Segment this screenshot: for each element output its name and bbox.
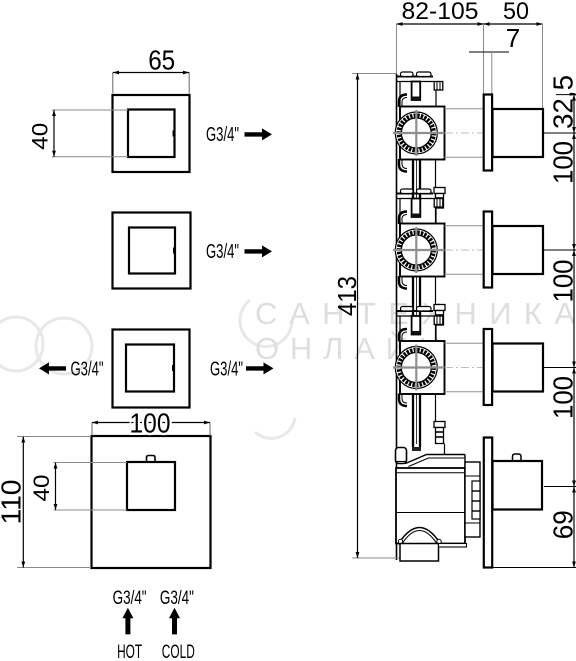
dimension 110 extension lines (17, 436, 91, 438)
trim plate square 2 outer (113, 213, 191, 289)
svg-text:65: 65 (148, 45, 175, 76)
valve cartridge V1 (393, 72, 543, 172)
svg-text:7: 7 (506, 23, 520, 53)
right dimension chain line (573, 95, 575, 568)
dimension 110 line (22, 437, 24, 568)
svg-text:50: 50 (503, 0, 529, 25)
svg-text:40: 40 (28, 123, 53, 150)
thermostat bracket cap (396, 448, 407, 464)
trim plate square 3 outer (113, 330, 190, 408)
thermostat handle side (493, 461, 543, 510)
dimension 413 extension bottom (352, 557, 402, 559)
chain tick V2 center (544, 249, 576, 251)
dimension 40 extension lines (thermostat) (54, 462, 128, 464)
thermostat bottom outlet block (400, 544, 439, 562)
chain tick V3 center (544, 367, 576, 369)
cold inlet arrow up (169, 608, 180, 635)
svg-text:HOT: HOT (117, 642, 142, 661)
chain tick V1 center (543, 132, 576, 134)
arrow right square 2 (245, 245, 273, 257)
svg-text:COLD: COLD (162, 642, 195, 661)
wall line (396, 74, 398, 560)
dimension 65 extension lines (112, 73, 114, 94)
svg-text:40: 40 (29, 475, 54, 502)
thermostat right ledge (439, 544, 467, 548)
svg-text:G3/4": G3/4" (206, 124, 239, 146)
svg-text:100: 100 (548, 260, 576, 303)
dimension 40 extension lines (square 1) (52, 109, 128, 111)
chain tick bottom (493, 567, 576, 569)
svg-text:110: 110 (0, 480, 27, 525)
thermostat connector stack (465, 462, 480, 537)
svg-text:G3/4": G3/4" (206, 241, 239, 263)
svg-text:413: 413 (332, 276, 362, 316)
top dimension line (397, 23, 543, 25)
svg-text:32,5: 32,5 (548, 75, 576, 129)
pipe below V3 (412, 394, 414, 447)
dimension 100 extension lines (91, 423, 93, 437)
dimension 40 line (thermostat) (55, 463, 57, 511)
thermostat body top band line (396, 472, 465, 474)
thermostat body top chamfer (406, 455, 466, 464)
svg-text:G3/4": G3/4" (210, 359, 243, 381)
valve cartridge V3 (393, 307, 543, 407)
thermostat handle button (147, 456, 156, 463)
thermostat body split line (396, 512, 465, 514)
thermostat body (396, 468, 465, 544)
svg-text:100: 100 (130, 408, 171, 439)
pipe and plug below V1 (412, 160, 445, 225)
pipe and plug below V2 (412, 277, 445, 342)
arrow right square 1 (245, 128, 273, 140)
chain tick plate top (556, 94, 576, 96)
plug above thermostat body (434, 422, 445, 428)
dimension 40 line (square 1) (53, 110, 55, 157)
dimension 7 leader line (469, 51, 509, 53)
handle notch square 3 (172, 365, 175, 371)
thermostat trim plate inner handle (127, 462, 175, 510)
dome base corner details (398, 539, 402, 543)
extension line wall (396, 24, 398, 74)
hot inlet arrow up (122, 608, 133, 635)
svg-text:82-105: 82-105 (402, 0, 479, 25)
watermark logo circles (0, 300, 295, 438)
extension line handle front (542, 24, 544, 133)
svg-text:G3/4": G3/4" (71, 359, 104, 381)
trim plate square 2 inner handle (129, 228, 175, 274)
thermostat bottom dome (399, 528, 440, 544)
svg-text:100: 100 (548, 376, 576, 419)
valve cartridge V2 (393, 189, 543, 289)
svg-text:69: 69 (548, 510, 576, 539)
dimension 413 extension top (352, 73, 396, 75)
svg-text:100: 100 (548, 141, 576, 184)
arrow right square 3 (246, 362, 274, 374)
handle notch square 1 (173, 131, 176, 137)
dimension 413 line (357, 74, 359, 559)
svg-text:G3/4": G3/4" (113, 588, 147, 609)
trim plate square 1 inner handle (128, 110, 175, 158)
handle notch square 2 (173, 248, 176, 254)
dimension 65 line (113, 72, 189, 74)
thermostat trim plate side (484, 438, 492, 568)
dimension 100 line (92, 422, 210, 424)
trim plate square 1 outer (113, 95, 190, 172)
thermostat handle button side (513, 454, 522, 461)
thermostat trim plate outer (92, 436, 211, 568)
svg-text:G3/4": G3/4" (160, 588, 194, 609)
extension line plate front (483, 24, 485, 94)
chain tick thermostat center (544, 486, 576, 488)
body side line above thermostat (435, 394, 437, 422)
trim plate square 3 inner handle (126, 345, 174, 392)
arrow left square 3 (39, 362, 66, 374)
